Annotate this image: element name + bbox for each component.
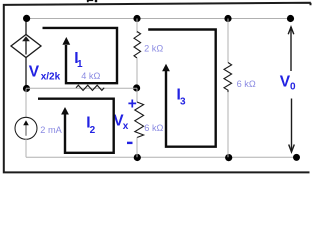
svg-text:4 kΩ: 4 kΩ: [81, 71, 100, 81]
node at left 4k junction: [23, 85, 30, 92]
wire left below junction: [25, 89, 27, 118]
Vo arrow upper: [288, 27, 294, 71]
wire middle branch upper: [136, 19, 138, 34]
resistor R4 6k right: [224, 63, 232, 93]
wire left upper (to dependent source): [25, 19, 27, 35]
svg-text:x: x: [123, 121, 129, 132]
node middle 4k junction: [133, 84, 140, 91]
mesh loop I1: [43, 28, 118, 83]
node top far right: [287, 15, 294, 22]
resistor R2 4k: [76, 85, 104, 90]
current source U1 dependent Vx/2k: [11, 35, 41, 58]
resistor R3 6k: [135, 102, 144, 138]
wire left lower: [25, 139, 27, 157]
svg-text:2 mA: 2 mA: [40, 125, 62, 135]
wire middle branch below junction: [136, 88, 138, 102]
svg-text:V: V: [29, 64, 40, 81]
svg-text:2: 2: [90, 125, 96, 136]
Vo arrow lower: [289, 99, 295, 153]
svg-text:2 kΩ: 2 kΩ: [144, 43, 163, 53]
wire bottom: [26, 156, 297, 158]
wire right-mid branch lower: [227, 92, 229, 157]
wire middle branch lower: [136, 138, 138, 158]
node top right-mid: [224, 15, 231, 22]
svg-text:6 kΩ: 6 kΩ: [237, 79, 256, 89]
node top middle: [133, 15, 140, 22]
svg-text:1: 1: [77, 59, 83, 70]
minus sign Vx: [127, 142, 133, 144]
svg-text:3: 3: [180, 97, 186, 108]
mesh loop I3: [148, 30, 216, 147]
wire top: [26, 18, 291, 20]
node top left: [23, 15, 30, 22]
node bottom right-mid: [225, 154, 232, 161]
wire right-mid branch upper: [227, 19, 229, 63]
wire middle branch mid: [136, 58, 138, 88]
frame border (open right side): [4, 3, 311, 173]
node bottom middle: [134, 154, 141, 161]
mesh arrow I3 head: [162, 64, 170, 72]
svg-text:0: 0: [290, 81, 296, 92]
svg-text:+: +: [128, 96, 137, 113]
svg-text:x/2k: x/2k: [41, 71, 61, 82]
wire left mid: [25, 58, 27, 89]
mesh arrow I1 head: [62, 37, 70, 45]
mesh loop I2: [38, 99, 114, 153]
wire 4k horizontal: [26, 87, 137, 89]
svg-text:6 kΩ: 6 kΩ: [144, 123, 163, 133]
resistor R1 2k: [134, 32, 141, 59]
node bottom far right: [293, 154, 300, 161]
mesh arrow I2 head: [61, 107, 69, 115]
cropped glyph fragments at top edge: [87, 0, 93, 1]
current source I 2mA: [15, 117, 37, 139]
